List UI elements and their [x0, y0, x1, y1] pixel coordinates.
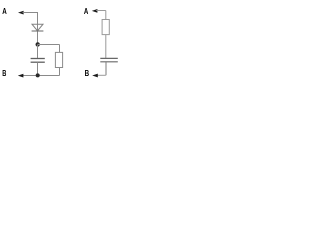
wire [37, 12, 39, 45]
wire [37, 45, 39, 59]
wire [97, 74, 106, 76]
capacitor C2 [100, 58, 118, 61]
diode D1 [32, 24, 44, 31]
svg-text:A: A [2, 7, 7, 16]
terminal arrow B (left) [18, 74, 24, 78]
terminal arrow A (left) [18, 11, 24, 15]
wire [59, 45, 61, 53]
resistor R1 [55, 52, 62, 67]
wire [96, 10, 106, 12]
node junction top [36, 42, 40, 46]
capacitor C1 [31, 59, 45, 63]
wire [38, 44, 60, 46]
wire [37, 62, 39, 75]
wire [105, 35, 107, 59]
svg-text:B: B [2, 69, 6, 78]
wire [105, 11, 107, 20]
wire [23, 12, 38, 14]
wire [59, 68, 61, 76]
resistor R2 [102, 20, 109, 35]
svg-text:A: A [84, 7, 88, 16]
svg-text:B: B [85, 69, 90, 78]
wire [105, 62, 107, 75]
terminal arrow B (right) [92, 74, 98, 78]
node junction bottom [36, 73, 40, 77]
wire [23, 75, 60, 77]
terminal arrow A (right) [92, 9, 98, 13]
